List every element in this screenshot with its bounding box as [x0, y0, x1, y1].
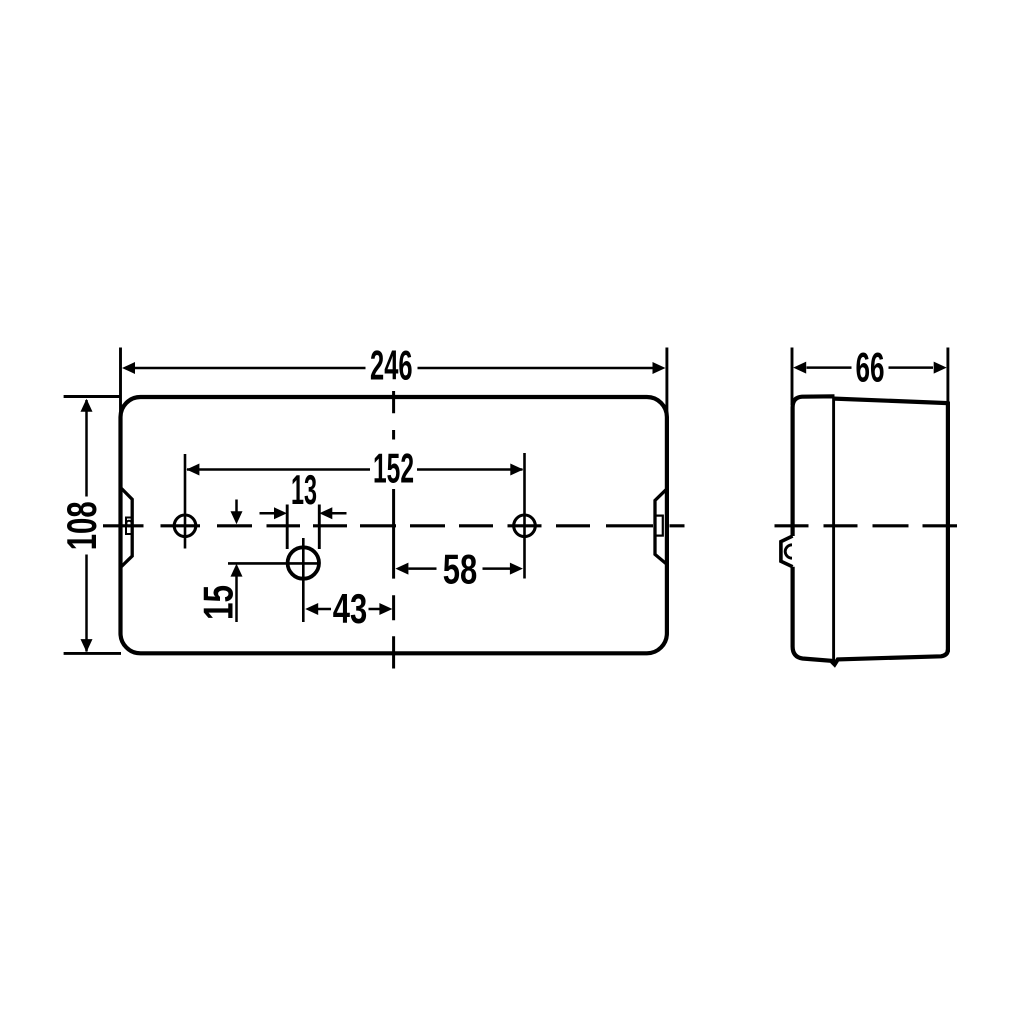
svg-text:108: 108 [58, 501, 105, 550]
svg-text:152: 152 [373, 445, 414, 492]
svg-text:15: 15 [194, 585, 241, 620]
svg-text:43: 43 [333, 585, 368, 632]
svg-text:58: 58 [443, 545, 478, 592]
svg-text:66: 66 [856, 343, 885, 390]
svg-text:246: 246 [370, 342, 413, 389]
svg-text:13: 13 [291, 466, 317, 513]
